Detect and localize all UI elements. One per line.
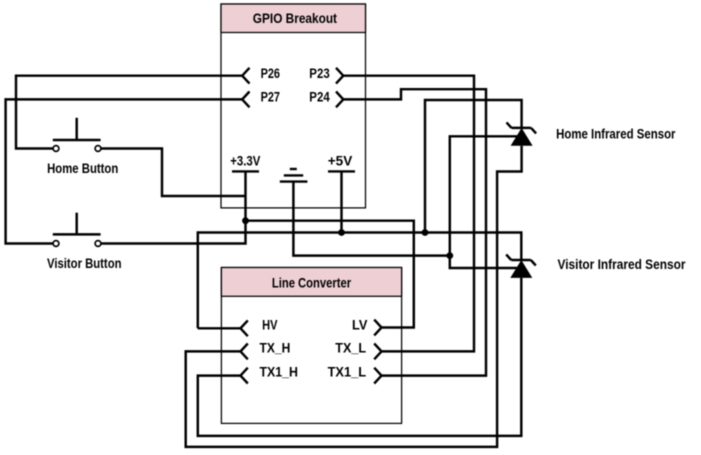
- svg-text:+5V: +5V: [328, 153, 353, 168]
- ground symbol: [280, 169, 308, 182]
- wire +3.3V stem down to Visitor Button right terminal: [101, 171, 246, 243]
- wire net P24: GPIO P24 jog to Line Converter TX1_L: [343, 89, 486, 375]
- IC U1: GPIO Breakout box: [221, 4, 366, 208]
- wire net P23: GPIO P23 to Line Converter TX_L: [343, 76, 474, 352]
- svg-text:Visitor Infrared Sensor: Visitor Infrared Sensor: [558, 257, 687, 272]
- pin P27 chevron: [242, 92, 249, 108]
- wire +3.3V branch to Line Converter LV: [246, 221, 414, 328]
- svg-text:Line Converter: Line Converter: [272, 276, 352, 291]
- pin TX_L chevron: [374, 344, 381, 360]
- switch S1 Home Button: [53, 118, 101, 152]
- pin HV chevron: [241, 320, 248, 336]
- wire +5V rail to HV pin: [198, 327, 241, 329]
- pin P26 chevron: [242, 68, 249, 84]
- wire ground to Home Infrared Sensor middle and Visitor Infrared Sensor middle: [450, 136, 517, 268]
- junction dot +5V branch: [422, 229, 429, 236]
- svg-text:Home Infrared Sensor: Home Infrared Sensor: [556, 127, 676, 142]
- power +3.3V bar: [232, 170, 259, 172]
- svg-text:P24: P24: [309, 90, 330, 105]
- IC U2: Line Converter box: [221, 268, 401, 424]
- svg-text:TX_L: TX_L: [335, 340, 366, 355]
- wire +5V branch to Home Infrared Sensor top: [425, 100, 522, 233]
- svg-text:GPIO Breakout: GPIO Breakout: [253, 11, 338, 26]
- pin TX1_L chevron: [374, 368, 381, 384]
- wire +5V rail to Visitor Infrared Sensor top: [198, 233, 522, 329]
- diode D1 Home Infrared Sensor: [507, 122, 537, 145]
- diode D2 Visitor Infrared Sensor: [506, 255, 536, 278]
- pin P24 chevron: [336, 92, 343, 108]
- svg-text:+3.3V: +3.3V: [230, 153, 260, 168]
- wire net P27: GPIO P27 to Visitor Button left terminal: [6, 99, 243, 243]
- wire net TX_H to Home Infrared Sensor bottom: [186, 146, 522, 447]
- pin LV chevron: [374, 320, 381, 336]
- power +5V bar: [328, 170, 355, 172]
- pin TX1_H chevron: [241, 368, 248, 384]
- svg-text:HV: HV: [262, 317, 277, 332]
- svg-text:Visitor Button: Visitor Button: [47, 256, 122, 271]
- wire net TX1_H to Visitor Infrared Sensor bottom: [198, 278, 522, 436]
- wire +5V stem: [340, 171, 342, 232]
- svg-text:TX1_L: TX1_L: [328, 365, 367, 380]
- wire net P26: GPIO P26 to Home Button left terminal: [16, 76, 242, 149]
- svg-text:Home Button: Home Button: [47, 161, 118, 176]
- switch S2 Visitor Button: [53, 213, 101, 247]
- svg-text:TX1_H: TX1_H: [260, 365, 299, 380]
- svg-text:LV: LV: [352, 317, 367, 332]
- svg-text:P26: P26: [261, 66, 281, 81]
- svg-text:TX_H: TX_H: [260, 340, 291, 355]
- svg-text:P23: P23: [309, 66, 330, 81]
- wire Home Button right terminal to +3.3V stem: [101, 149, 246, 197]
- wire ground stem to sensors middle pins: [293, 182, 449, 256]
- pin TX_H chevron: [241, 344, 248, 360]
- pin P23 chevron: [336, 68, 343, 84]
- junction dot ground net: [446, 252, 453, 259]
- svg-text:P27: P27: [261, 90, 280, 105]
- junction dot +5V stem: [338, 229, 345, 236]
- junction dot +3.3V branch: [242, 217, 249, 224]
